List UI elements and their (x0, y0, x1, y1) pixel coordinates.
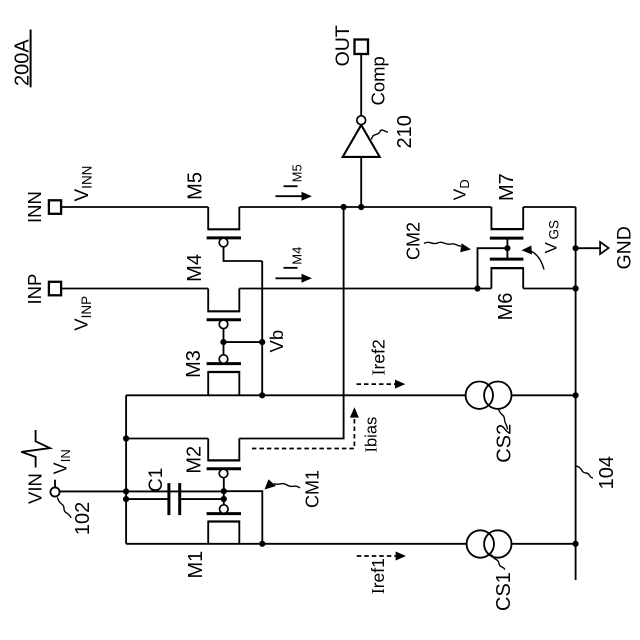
current source CS1 (467, 530, 512, 557)
svg-text:GS: GS (547, 220, 562, 240)
svg-text:M2: M2 (184, 446, 206, 474)
figure label 200A (11, 30, 33, 88)
junction dot M2 drain INN rail (341, 204, 347, 210)
svg-text:CM1: CM1 (303, 470, 323, 508)
svg-text:VINN: VINN (72, 166, 95, 202)
junction dot VIN-bus (123, 488, 129, 494)
wire INN rail middle segment (239, 206, 491, 208)
svg-text:CM2: CM2 (404, 222, 424, 260)
wire Vb stub (224, 341, 263, 343)
current arrow Iref1 dashed (357, 552, 406, 561)
svg-text:GND: GND (613, 226, 635, 269)
wire INN rail lower segment (523, 206, 575, 208)
svg-text:INN: INN (24, 191, 45, 223)
junction dot gate tie INP rail (474, 285, 480, 291)
squiggle leader CS2 (499, 409, 508, 430)
VIN waveform icon (21, 430, 50, 468)
wire bottom rail 104 (575, 207, 577, 580)
junction dot CS2 rail (573, 392, 579, 398)
transistor M2 (207, 439, 241, 478)
CM2 leader arrow (424, 242, 471, 252)
junction dot CS1 rail (573, 541, 579, 547)
transistor M3 (207, 355, 241, 396)
squiggle leader 210 (372, 130, 389, 140)
svg-text:M6: M6 (495, 293, 517, 321)
junction dot Vb on CS2 line (259, 392, 265, 398)
svg-text:V: V (542, 242, 561, 254)
squiggle leader 102 (58, 498, 72, 519)
wire M1 CS1 vertical line (126, 543, 575, 545)
svg-text:Ibias: Ibias (362, 417, 381, 453)
svg-text:M1: M1 (185, 551, 207, 579)
ground symbol (576, 242, 609, 254)
svg-text:210: 210 (394, 115, 416, 148)
junction dot inverter input (358, 204, 364, 210)
transistor M5 (207, 207, 241, 247)
inverter 210 (343, 116, 380, 157)
squiggle leader 104 (577, 466, 594, 478)
junction dot GND (573, 245, 579, 251)
wire INP rail upper segment (61, 288, 208, 290)
wire inverter output (360, 54, 362, 116)
svg-text:I: I (280, 265, 302, 271)
svg-text:OUT: OUT (332, 25, 354, 66)
transistor M7 (490, 207, 524, 248)
transistor M4 (207, 289, 241, 329)
current arrow Iref2 dashed (357, 380, 406, 389)
current arrow Ibias dashed (252, 407, 359, 448)
wire inverter input (360, 157, 362, 207)
junction dot Vb (259, 339, 265, 345)
svg-text:C1: C1 (146, 468, 167, 492)
svg-text:VINP: VINP (71, 296, 95, 331)
wire INP rail lower segment (523, 288, 575, 290)
svg-text:104: 104 (596, 456, 618, 489)
squiggle leader CS1 (492, 555, 506, 570)
junction dot M6 M7 gates (504, 245, 510, 251)
terminal INP (24, 274, 61, 305)
junction dot M2rail-bus (123, 435, 129, 441)
transistor M1 (207, 505, 241, 544)
junction dot INP rail bottom (573, 285, 579, 291)
junction dot M1 drain tie (259, 541, 265, 547)
svg-text:M4: M4 (290, 247, 305, 265)
capacitor C1 (126, 483, 224, 515)
CM1 leader arrow (265, 479, 301, 489)
svg-text:M4: M4 (184, 254, 206, 282)
wire M2 drain down and over to INN rail (239, 207, 343, 439)
junction dot M2 gate (221, 488, 227, 494)
wire M2 rail upper (126, 438, 208, 440)
svg-text:M3: M3 (183, 350, 205, 378)
svg-text:102: 102 (72, 502, 94, 535)
svg-text:I: I (280, 183, 302, 189)
svg-text:M5: M5 (184, 172, 206, 200)
svg-text:M5: M5 (290, 164, 305, 182)
svg-text:CS1: CS1 (493, 572, 515, 611)
junction dot M3 M4 gates (220, 339, 226, 345)
svg-text:VIN: VIN (24, 473, 45, 504)
VGS arc arrow (522, 246, 545, 270)
terminal VIN source circle 102 (50, 487, 59, 496)
svg-text:INP: INP (24, 274, 45, 305)
wire INN rail upper segment (61, 206, 208, 208)
svg-text:Vb: Vb (266, 330, 287, 353)
wire INP rail middle segment (239, 288, 491, 290)
svg-text:CS2: CS2 (494, 424, 516, 463)
current arrow IM5 (276, 192, 312, 201)
current source CS2 (466, 382, 512, 409)
wire gate tie to INP rail (478, 248, 508, 288)
wire M5 gate path (224, 247, 263, 261)
transistor M6 (490, 248, 524, 288)
wire Vb horizontal (261, 261, 263, 395)
svg-text:Iref1: Iref1 (368, 558, 388, 594)
junction dot C1-bus (123, 496, 129, 502)
current arrow IM4 (276, 274, 312, 283)
wire gate node link (223, 478, 225, 505)
wire top-left bus (125, 395, 127, 544)
svg-text:Iref2: Iref2 (368, 339, 388, 375)
wire M3 CS2 vertical line (126, 394, 575, 396)
lead from VIN circle (54, 480, 56, 488)
wire M2 gate tie down to M1 drain (224, 491, 262, 544)
junction dot M1 gate (221, 496, 227, 502)
terminal INN (24, 191, 61, 223)
terminal OUT (332, 25, 368, 66)
svg-text:Comp: Comp (368, 56, 389, 105)
wire VIN vertical down to M2 gate (60, 490, 224, 492)
wire M3 M4 gate link (223, 329, 225, 355)
svg-text:M7: M7 (496, 173, 518, 201)
svg-text:VD: VD (450, 179, 473, 200)
svg-text:VIN: VIN (51, 449, 74, 474)
